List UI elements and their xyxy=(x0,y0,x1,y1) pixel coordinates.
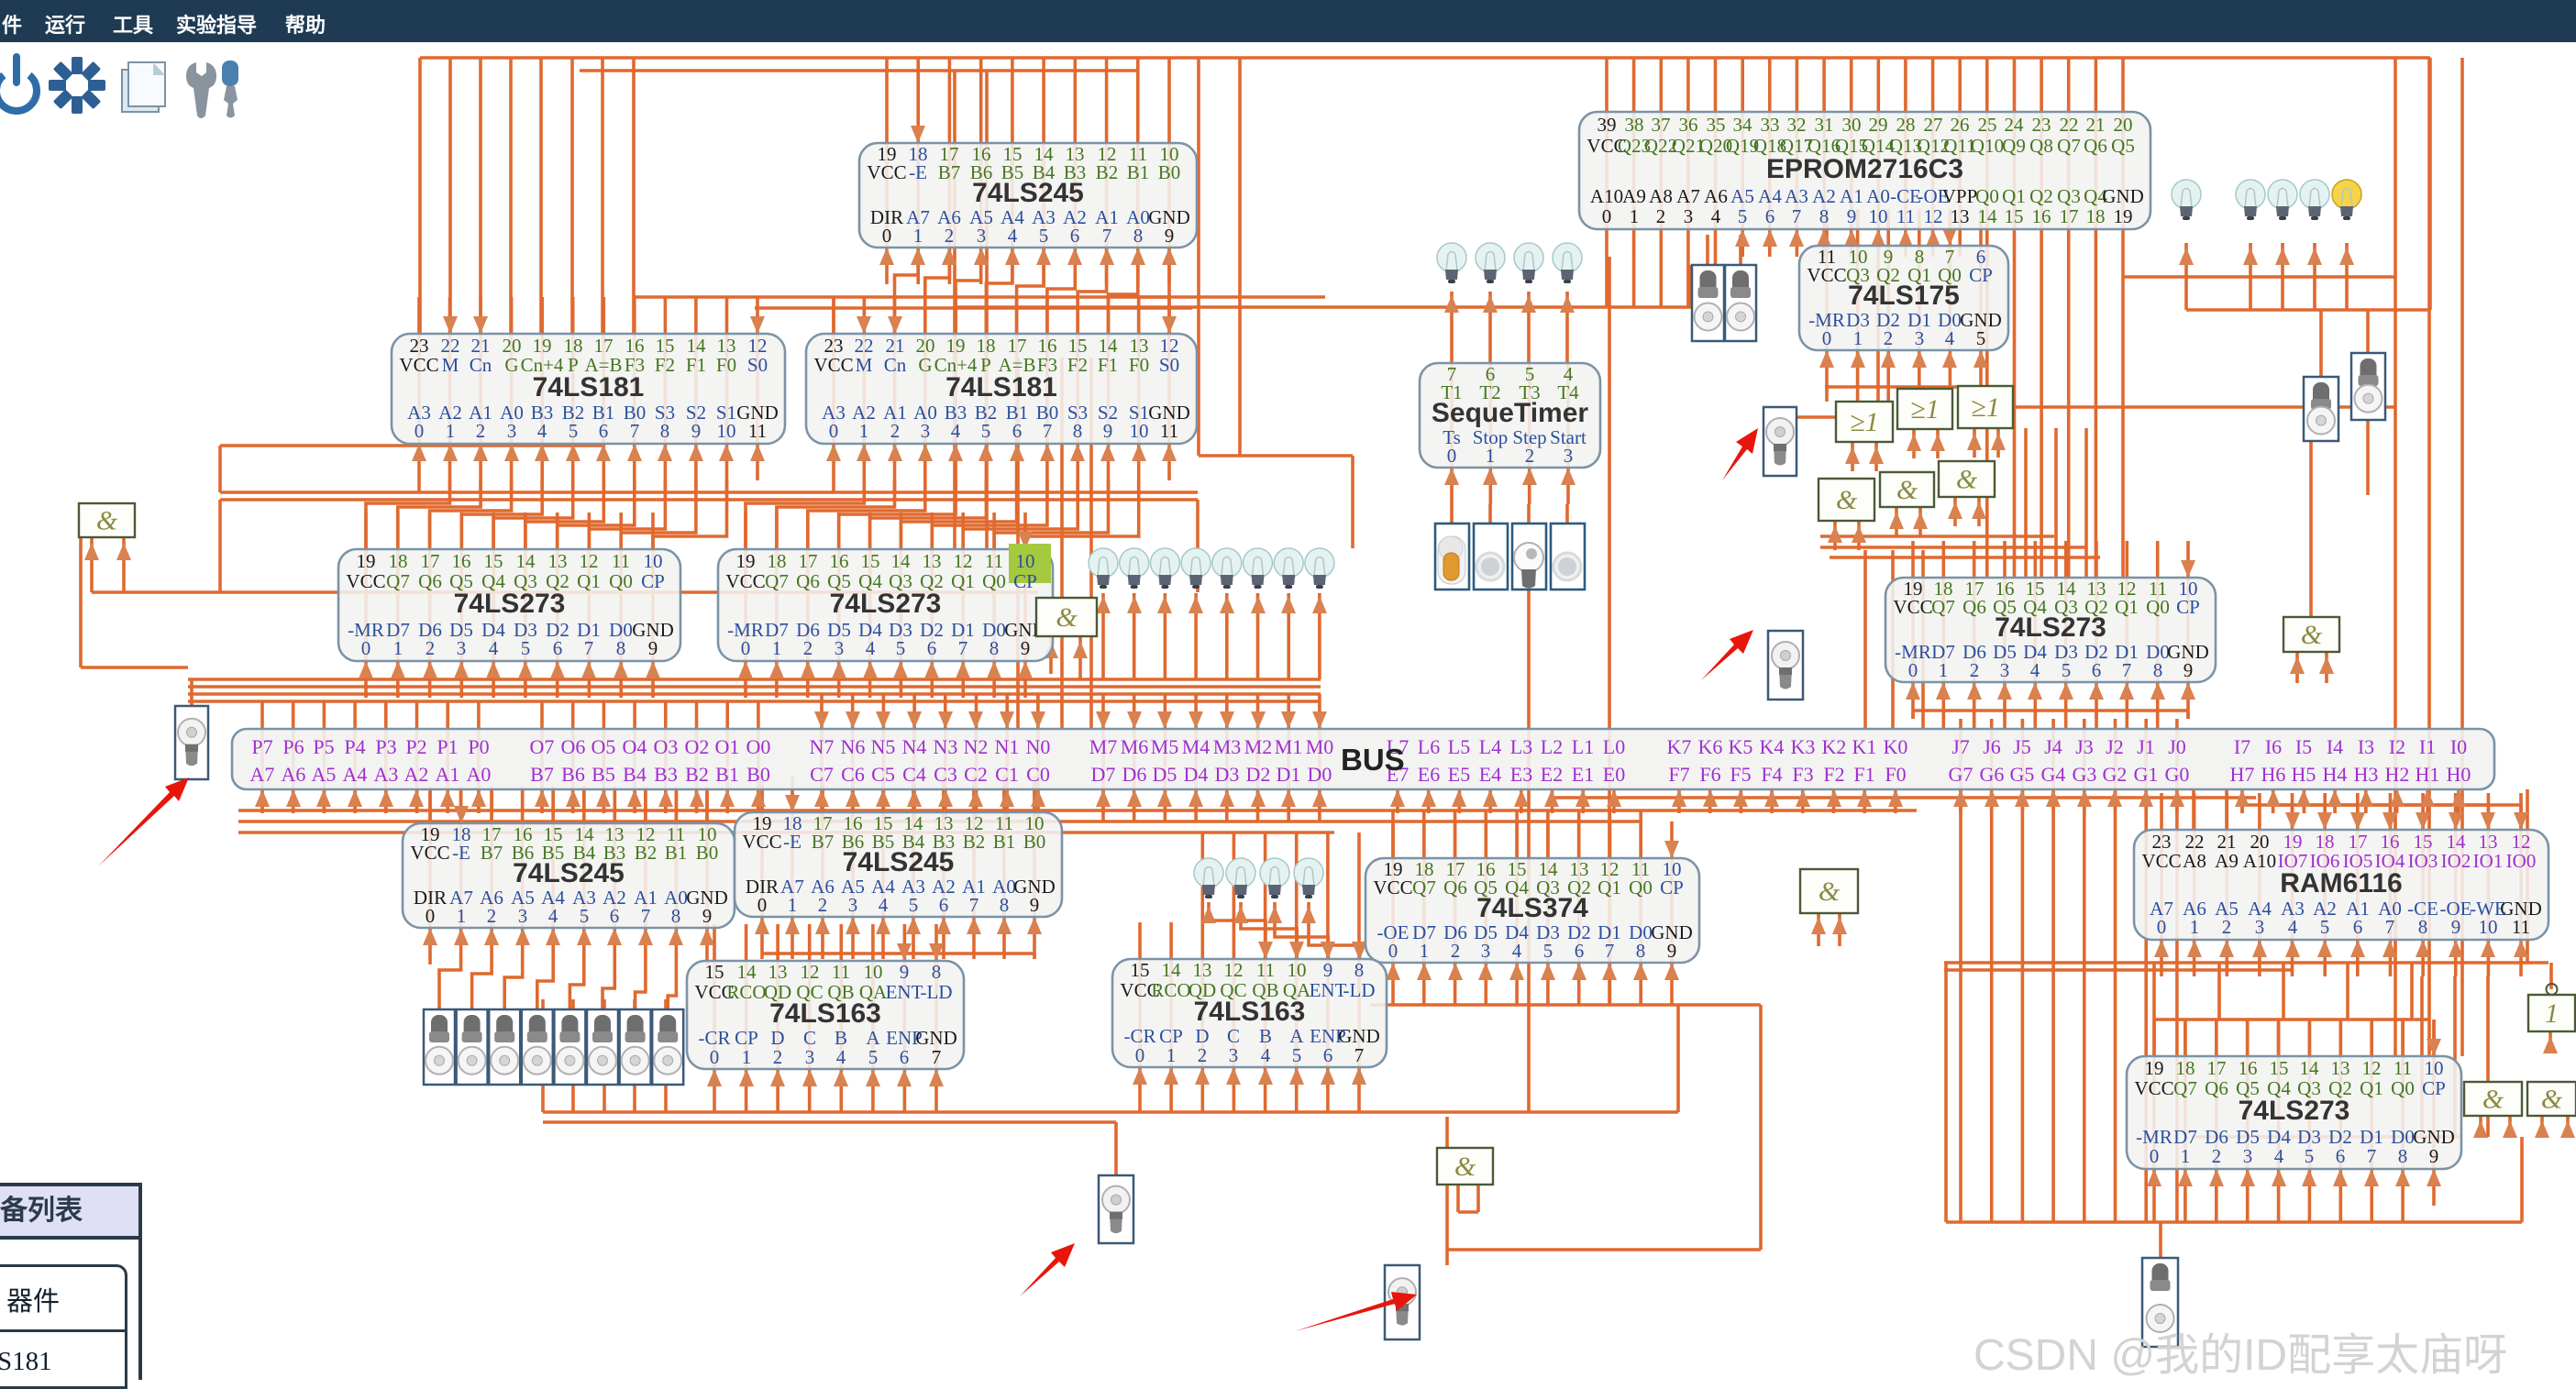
svg-text:RAM6116: RAM6116 xyxy=(2280,868,2402,898)
svg-text:74LS273: 74LS273 xyxy=(454,589,566,619)
svg-text:&: & xyxy=(96,506,118,536)
svg-text:74LS181: 74LS181 xyxy=(533,372,645,402)
svg-text:74LS273: 74LS273 xyxy=(2239,1096,2350,1126)
svg-text:74LS175: 74LS175 xyxy=(1848,281,1960,311)
svg-text:74LS273: 74LS273 xyxy=(830,589,942,619)
svg-text:&: & xyxy=(1896,475,1918,505)
svg-text:74LS181: 74LS181 xyxy=(945,372,1057,402)
svg-text:&: & xyxy=(1956,465,1978,495)
svg-text:&: & xyxy=(1819,876,1841,907)
svg-text:74LS273: 74LS273 xyxy=(1995,612,2106,643)
svg-text:&: & xyxy=(1454,1152,1476,1182)
svg-text:74LS374: 74LS374 xyxy=(1476,893,1588,923)
svg-text:74LS245: 74LS245 xyxy=(972,178,1084,208)
svg-text:&: & xyxy=(1056,602,1078,633)
svg-text:74LS245: 74LS245 xyxy=(513,858,625,888)
svg-text:&: & xyxy=(2541,1085,2563,1115)
svg-text:EPROM2716C3: EPROM2716C3 xyxy=(1766,154,1963,184)
svg-text:&: & xyxy=(2482,1085,2504,1115)
svg-text:≥1: ≥1 xyxy=(1971,392,1999,423)
svg-text:74LS163: 74LS163 xyxy=(769,998,881,1029)
svg-text:1: 1 xyxy=(2545,998,2559,1029)
svg-text:BUS: BUS xyxy=(1341,743,1405,777)
svg-text:≥1: ≥1 xyxy=(1910,394,1939,424)
svg-text:≥1: ≥1 xyxy=(1850,407,1878,437)
svg-text:CSDN @我的ID配享太庙呀: CSDN @我的ID配享太庙呀 xyxy=(1973,1331,2507,1376)
svg-text:SequeTimer: SequeTimer xyxy=(1432,398,1589,428)
svg-text:&: & xyxy=(1836,485,1858,515)
svg-text:74LS163: 74LS163 xyxy=(1194,997,1306,1027)
svg-text:74LS245: 74LS245 xyxy=(843,847,955,877)
svg-text:&: & xyxy=(2301,620,2323,650)
